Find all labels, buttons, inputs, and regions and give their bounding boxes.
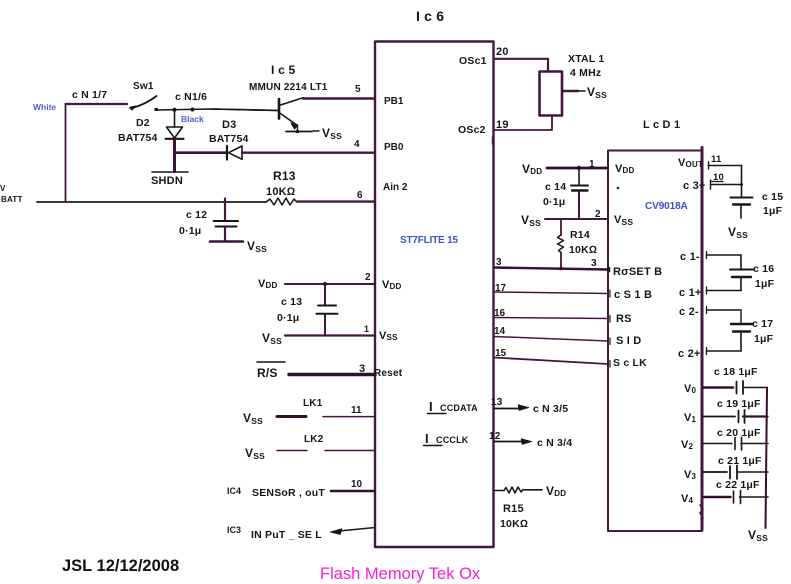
label C22 1uF bbox=[716, 479, 760, 491]
svg-text:White: White bbox=[33, 102, 56, 112]
ground VSS at rail bottom bbox=[748, 528, 768, 543]
svg-text:1μF: 1μF bbox=[763, 205, 783, 217]
diode D3 (BAT754, horizontal) bbox=[227, 146, 242, 160]
svg-text:20: 20 bbox=[496, 46, 509, 58]
label VBATT bbox=[0, 184, 23, 204]
wire VSS to IC6 pin 1 bbox=[285, 334, 375, 336]
svg-text:c 15: c 15 bbox=[762, 191, 783, 203]
svg-text:10KΩ: 10KΩ bbox=[266, 186, 296, 198]
wire C1- pin bbox=[707, 252, 742, 259]
svg-text:c 1+: c 1+ bbox=[679, 287, 702, 299]
label D3 BAT754 bbox=[209, 119, 249, 145]
resistor R13 bbox=[266, 198, 297, 205]
label SW1 bbox=[133, 81, 154, 92]
pin label Ain 2 bbox=[383, 182, 408, 193]
crystal XTAL1 body bbox=[540, 72, 563, 116]
wire C2- pin bbox=[707, 307, 742, 314]
svg-text:JSL 12/12/2008: JSL 12/12/2008 bbox=[62, 557, 179, 575]
svg-text:Flash Memory Tek Ox: Flash Memory Tek Ox bbox=[320, 565, 481, 583]
svg-text:11: 11 bbox=[711, 154, 722, 165]
svg-text:Sw1: Sw1 bbox=[133, 81, 154, 92]
svg-text:4 MHz: 4 MHz bbox=[570, 67, 601, 79]
label CN1/7 bbox=[72, 89, 107, 101]
pin label VDD inside LCD bbox=[615, 163, 635, 175]
svg-text:D3: D3 bbox=[222, 119, 236, 131]
svg-text:VDD: VDD bbox=[258, 278, 278, 290]
pin label OSC2 bbox=[458, 124, 486, 136]
pin number 11 bbox=[351, 405, 362, 416]
wire OSC2 pin 19 to XTAL1 bbox=[494, 116, 552, 131]
svg-text:RσSET B: RσSET B bbox=[613, 266, 662, 278]
svg-text:VSS: VSS bbox=[521, 213, 541, 228]
pin number 10 bbox=[351, 479, 363, 490]
svg-text:3: 3 bbox=[359, 363, 365, 375]
svg-text:V3: V3 bbox=[684, 469, 697, 481]
svg-text:c 22 1μF: c 22 1μF bbox=[716, 479, 760, 491]
svg-text:OSc1: OSc1 bbox=[459, 55, 487, 67]
pin label SCLK bbox=[613, 357, 647, 369]
svg-text:VSS: VSS bbox=[379, 330, 398, 342]
pin number 15 bbox=[495, 348, 507, 359]
wire C3+ pin 10 bbox=[711, 180, 744, 189]
label IC4 bbox=[227, 486, 241, 496]
label VSS at LK2 bbox=[245, 446, 265, 461]
svg-text:c 2+: c 2+ bbox=[678, 348, 701, 360]
svg-text:R13: R13 bbox=[273, 169, 296, 183]
svg-text:17: 17 bbox=[495, 283, 507, 294]
svg-text:c 2-: c 2- bbox=[679, 306, 699, 318]
svg-text:BAT754: BAT754 bbox=[118, 132, 158, 144]
svg-text:c N 1/7: c N 1/7 bbox=[72, 89, 107, 101]
svg-text:LK1: LK1 bbox=[303, 398, 323, 409]
capacitor C21 on V3 bbox=[703, 466, 768, 480]
IC LCD1 (CV9018A) body bbox=[608, 148, 703, 532]
label R13 10K bbox=[266, 169, 296, 198]
pin label C1- bbox=[680, 251, 700, 263]
pin number 13 bbox=[491, 397, 503, 408]
svg-text:6: 6 bbox=[357, 190, 363, 201]
pin label V3 bbox=[684, 469, 697, 481]
svg-text:PB0: PB0 bbox=[384, 142, 404, 153]
svg-text:VSS: VSS bbox=[262, 331, 282, 346]
pin number 3 (LCD side) bbox=[591, 258, 597, 269]
capacitor C20 on V2 bbox=[703, 437, 768, 450]
label IC6 bbox=[416, 8, 444, 24]
svg-text:10: 10 bbox=[351, 479, 363, 490]
label VDD node bbox=[258, 278, 278, 290]
svg-text:11: 11 bbox=[351, 405, 362, 416]
svg-text:SENSοR , οuT: SENSοR , οuT bbox=[252, 487, 325, 499]
svg-text:19: 19 bbox=[496, 119, 509, 131]
pin number 17 bbox=[495, 283, 507, 294]
pin number 16 bbox=[494, 308, 506, 319]
svg-text:0·1μ: 0·1μ bbox=[179, 225, 201, 237]
pin label PB1 bbox=[384, 96, 404, 107]
transistor Q IC5 (MMUN2214) bbox=[212, 98, 303, 132]
wire LK1 to IC6 pin 11 bbox=[323, 416, 375, 418]
pin label RESET (inside IC6) bbox=[374, 368, 403, 379]
svg-text:LK2: LK2 bbox=[304, 434, 324, 445]
pin number 6 bbox=[357, 190, 363, 201]
svg-text:2: 2 bbox=[365, 272, 371, 283]
label R/S (overlined) bbox=[257, 362, 285, 380]
svg-text:R15: R15 bbox=[503, 503, 524, 515]
pin number 2 bbox=[595, 209, 601, 220]
wire R/S to IC6 RESET pin bbox=[289, 373, 375, 376]
label White bbox=[33, 102, 56, 112]
wire R13 to IC6 pin 6 bbox=[297, 200, 375, 202]
pin label C3+ bbox=[683, 180, 706, 192]
pin label RESETB inside LCD bbox=[606, 266, 662, 278]
label C15 1uF bbox=[762, 191, 783, 217]
svg-text:CV9018A: CV9018A bbox=[645, 201, 688, 212]
pin label V4 bbox=[681, 493, 694, 505]
wire LK2 to IC6 pin 12 bbox=[325, 450, 375, 452]
label VSS at LCD pin 2 bbox=[521, 213, 541, 228]
svg-text:c 14: c 14 bbox=[545, 181, 566, 193]
resistor R14 (vertical) bbox=[558, 219, 564, 270]
wire OSC1 pin 20 to XTAL1 bbox=[494, 59, 548, 71]
label C14 0.1u bbox=[543, 181, 566, 208]
ground VSS below C12 bbox=[210, 239, 267, 254]
label CV9018A bbox=[645, 201, 688, 212]
wire VSS to LCD pin 2 bbox=[545, 218, 607, 220]
svg-text:RS: RS bbox=[616, 313, 632, 325]
pin number 2 bbox=[365, 272, 371, 283]
svg-text:IN PuT _ SE L: IN PuT _ SE L bbox=[251, 529, 322, 541]
label CN1/6 bbox=[175, 91, 207, 103]
svg-text:c S 1 B: c S 1 B bbox=[614, 289, 652, 301]
wire IC6 pin 14 to LCD SID bbox=[494, 337, 610, 345]
svg-text:SHDN: SHDN bbox=[151, 175, 183, 187]
diode D2 (BAT754, vertical) bbox=[166, 110, 184, 172]
label SENSOR.OUT bbox=[252, 487, 325, 499]
label C21 1uF bbox=[718, 455, 762, 467]
label CN3/4 bbox=[537, 437, 572, 449]
pin number 4 bbox=[354, 139, 360, 150]
label Flash Memory Tek Ox bbox=[320, 565, 481, 583]
svg-text:IC3: IC3 bbox=[227, 525, 241, 535]
pin number 19 bbox=[496, 119, 509, 131]
wire IC6 pin 15 to LCD SCLK bbox=[494, 358, 610, 368]
svg-text:1: 1 bbox=[364, 324, 369, 334]
pin number 10 (underlined) bbox=[712, 172, 724, 183]
pin number 3 (IC6 right) bbox=[496, 257, 502, 268]
pin label RS bbox=[616, 313, 632, 325]
link LK2 bbox=[277, 434, 324, 451]
wire IC6 pin 3 to LCD RESETB bbox=[494, 268, 608, 270]
label IC5 MMUN2214LT1 bbox=[249, 63, 328, 93]
ground VSS below C15 bbox=[728, 225, 748, 240]
pin number 1 bbox=[589, 159, 595, 170]
svg-text:VDD: VDD bbox=[615, 163, 635, 175]
pin label V2 bbox=[681, 439, 694, 451]
wire VDD to IC6 pin 2 bbox=[285, 282, 375, 286]
svg-text:MMUN 2214 LT1: MMUN 2214 LT1 bbox=[249, 82, 328, 93]
svg-text:BATT: BATT bbox=[1, 195, 23, 204]
capacitor C18 on V0 bbox=[703, 381, 767, 394]
label ICCCLK bbox=[424, 431, 469, 446]
svg-text:S I D: S I D bbox=[616, 335, 641, 347]
svg-text:Ain 2: Ain 2 bbox=[383, 182, 408, 193]
svg-text:VOUT: VOUT bbox=[678, 157, 703, 169]
label C12 0.1u bbox=[179, 209, 207, 237]
capacitor C12 bbox=[214, 199, 239, 241]
svg-text:15: 15 bbox=[495, 348, 507, 359]
svg-text:0·1μ: 0·1μ bbox=[277, 312, 299, 324]
ground VSS at IC5 emitter bbox=[286, 126, 342, 141]
wire CN1/6 node (black) bbox=[156, 108, 279, 112]
stray pen mark below pin 19 bbox=[492, 137, 494, 144]
svg-text:L c D 1: L c D 1 bbox=[643, 119, 680, 131]
svg-text:I c 6: I c 6 bbox=[416, 8, 444, 24]
capacitor C17 bbox=[731, 310, 752, 351]
label VDD at LCD pin 1 bbox=[522, 162, 542, 176]
svg-text:c 12: c 12 bbox=[186, 209, 207, 221]
label INPUT_SEL bbox=[251, 529, 322, 541]
wire VOUT pin 11 bbox=[709, 162, 742, 169]
label R14 10K bbox=[569, 229, 597, 256]
svg-text:ST7FLITE 15: ST7FLITE 15 bbox=[400, 235, 458, 246]
wire VSS rail right bbox=[766, 388, 768, 529]
svg-text:2: 2 bbox=[595, 209, 601, 220]
svg-text:VDD: VDD bbox=[546, 484, 566, 498]
svg-text:c 16: c 16 bbox=[753, 263, 774, 275]
svg-text:VSS: VSS bbox=[614, 214, 633, 227]
pin label C2+ bbox=[678, 348, 701, 360]
svg-text:16: 16 bbox=[494, 308, 506, 319]
wire ICCCLK pin 12 arrow to CN3/4 bbox=[494, 439, 532, 445]
svg-text:IC4: IC4 bbox=[227, 486, 241, 496]
svg-text:c 3+: c 3+ bbox=[683, 180, 706, 192]
switch SW1 bbox=[130, 96, 159, 111]
svg-text:V2: V2 bbox=[681, 439, 694, 451]
pin number 14 bbox=[494, 326, 506, 337]
svg-text:VDD: VDD bbox=[382, 279, 402, 291]
svg-text:0·1μ: 0·1μ bbox=[543, 196, 565, 208]
svg-text:Black: Black bbox=[181, 114, 204, 124]
svg-text:5: 5 bbox=[355, 84, 361, 95]
pin label C2- bbox=[679, 306, 699, 318]
capacitor C15 bbox=[731, 166, 753, 219]
svg-text:VSS: VSS bbox=[587, 85, 607, 100]
wire PB0 line (pin 4 net) bbox=[175, 151, 227, 154]
pin number 3 (reset) bbox=[359, 363, 365, 375]
wire IC6 pin 17 to LCD CS1B bbox=[494, 290, 610, 297]
wire D3 to IC6 pin 4 bbox=[242, 151, 375, 153]
svg-text:10KΩ: 10KΩ bbox=[500, 518, 528, 530]
pin label V0 bbox=[684, 383, 697, 395]
label C19 1uF bbox=[717, 398, 761, 410]
pin number 5 bbox=[355, 84, 361, 95]
pin label SID bbox=[616, 335, 641, 347]
ground VSS at XTAL1 bbox=[562, 85, 607, 100]
svg-text:XTAL 1: XTAL 1 bbox=[568, 53, 604, 65]
wire CN1/7 (White lead) horizontal bbox=[66, 103, 128, 105]
svg-text:13: 13 bbox=[491, 397, 503, 408]
svg-text:12: 12 bbox=[489, 431, 501, 442]
svg-text:c 20 1μF: c 20 1μF bbox=[717, 427, 761, 439]
pin label PB0 bbox=[384, 142, 404, 153]
svg-text:1: 1 bbox=[589, 159, 595, 170]
svg-text:1μF: 1μF bbox=[754, 333, 774, 345]
svg-text:V: V bbox=[0, 184, 6, 193]
link LK1 bbox=[277, 398, 323, 417]
label C13 0.1u bbox=[277, 296, 302, 324]
label ICCDATA bbox=[428, 399, 479, 414]
svg-text:c 1-: c 1- bbox=[680, 251, 700, 263]
IC U6 (ST7FLITE 15) body bbox=[375, 42, 494, 548]
wire VDD to LCD pin 1 bbox=[547, 166, 607, 170]
svg-text:I: I bbox=[425, 431, 429, 446]
pin label VSS inside LCD bbox=[614, 214, 633, 227]
label IC3 bbox=[227, 525, 241, 535]
pin number 20 bbox=[496, 46, 509, 58]
wire IC5 collector to IC6 pin 5 bbox=[303, 97, 375, 99]
svg-text:VSS: VSS bbox=[322, 126, 342, 141]
capacitor C19 on V1 bbox=[703, 410, 768, 423]
wire ICCDATA pin 13 arrow to CN3/5 bbox=[494, 405, 529, 411]
label D2 BAT754 bbox=[118, 117, 158, 144]
svg-text:3: 3 bbox=[591, 258, 597, 269]
svg-text:c N 3/4: c N 3/4 bbox=[537, 437, 572, 449]
svg-text:Reset: Reset bbox=[374, 368, 403, 379]
capacitor C22 on V4 bbox=[703, 491, 768, 504]
stray ink dot bbox=[617, 187, 620, 190]
label C17 1uF bbox=[752, 318, 774, 345]
resistor R15 bbox=[494, 487, 542, 493]
svg-text:c 18 1μF: c 18 1μF bbox=[714, 366, 758, 378]
wire C1+ pin bbox=[707, 287, 742, 294]
svg-text:VSS: VSS bbox=[243, 411, 263, 426]
pin label VSS (inside IC6) bbox=[379, 330, 398, 342]
wire INPUT_SEL arrow from IC6 bbox=[330, 528, 375, 535]
label CN3/5 bbox=[533, 403, 568, 415]
svg-text:c N 3/5: c N 3/5 bbox=[533, 403, 568, 415]
svg-text:VSS: VSS bbox=[728, 225, 748, 240]
svg-text:V1: V1 bbox=[684, 412, 697, 424]
pin label C1+ bbox=[679, 287, 702, 299]
pin label VOUT bbox=[678, 157, 703, 169]
svg-text:10KΩ: 10KΩ bbox=[569, 244, 597, 256]
label ST7FLITE 15 bbox=[400, 235, 458, 246]
svg-text:c 21 1μF: c 21 1μF bbox=[718, 455, 762, 467]
pin label CS1B bbox=[614, 289, 652, 301]
svg-text:S c LK: S c LK bbox=[613, 357, 647, 369]
svg-text:VSS: VSS bbox=[245, 446, 265, 461]
svg-text:1μF: 1μF bbox=[755, 278, 775, 290]
label VDD at R15 bbox=[546, 484, 566, 498]
label VSS at LK1 bbox=[243, 411, 263, 426]
svg-text:BAT754: BAT754 bbox=[209, 133, 249, 145]
svg-text:3: 3 bbox=[496, 257, 502, 268]
label R15 10K bbox=[500, 503, 528, 530]
label JSL 12/12/2008 bbox=[62, 557, 179, 575]
wire IC6 pin 16 to LCD RS bbox=[494, 316, 610, 323]
label C20 1uF bbox=[717, 427, 761, 439]
label XTAL1 4MHz bbox=[568, 53, 604, 79]
svg-text:4: 4 bbox=[354, 139, 360, 150]
label LCD1 bbox=[643, 119, 680, 131]
svg-text:VSS: VSS bbox=[748, 528, 768, 543]
svg-text:R/S: R/S bbox=[257, 366, 278, 380]
pin label OSC1 bbox=[459, 55, 487, 67]
pin number 12 bbox=[489, 431, 501, 442]
pin label V1 bbox=[684, 412, 697, 424]
label C16 1uF bbox=[753, 263, 775, 290]
capacitor C13 bbox=[317, 284, 338, 335]
svg-text:I c 5: I c 5 bbox=[271, 63, 295, 77]
pin number 11 bbox=[711, 154, 722, 165]
svg-text:PB1: PB1 bbox=[384, 96, 404, 107]
pin label VDD (inside IC6) bbox=[382, 279, 402, 291]
label C18 1uF bbox=[714, 366, 758, 378]
svg-text:c 19 1μF: c 19 1μF bbox=[717, 398, 761, 410]
svg-text:VDD: VDD bbox=[522, 162, 542, 176]
svg-text:D2: D2 bbox=[136, 117, 150, 129]
svg-text:VSS: VSS bbox=[247, 239, 267, 254]
svg-text:V4: V4 bbox=[681, 493, 694, 505]
svg-text:c N1/6: c N1/6 bbox=[175, 91, 207, 103]
wire C2+ pin bbox=[707, 348, 742, 355]
svg-text:CCCLK: CCCLK bbox=[436, 435, 469, 445]
svg-text:OSc2: OSc2 bbox=[458, 124, 486, 136]
pin number 1 bbox=[364, 324, 369, 334]
svg-text:CCDATA: CCDATA bbox=[440, 403, 478, 413]
svg-text:14: 14 bbox=[494, 326, 506, 337]
svg-text:c 13: c 13 bbox=[281, 296, 302, 308]
wire SENSOR.OUT to IC6 pin 10 bbox=[331, 490, 375, 493]
net VBATT rail bbox=[37, 201, 266, 203]
label VSS node pin1 bbox=[262, 331, 282, 346]
label Black bbox=[181, 114, 204, 124]
svg-text:c 17: c 17 bbox=[752, 318, 773, 330]
capacitor C16 bbox=[730, 255, 753, 291]
svg-text:I: I bbox=[429, 399, 433, 414]
svg-text:R14: R14 bbox=[570, 229, 590, 241]
capacitor C14 bbox=[571, 168, 588, 219]
svg-text:V0: V0 bbox=[684, 383, 697, 395]
wire White lead vertical to VBATT rail bbox=[65, 104, 67, 201]
net SHDN (overlined) bbox=[151, 172, 188, 187]
